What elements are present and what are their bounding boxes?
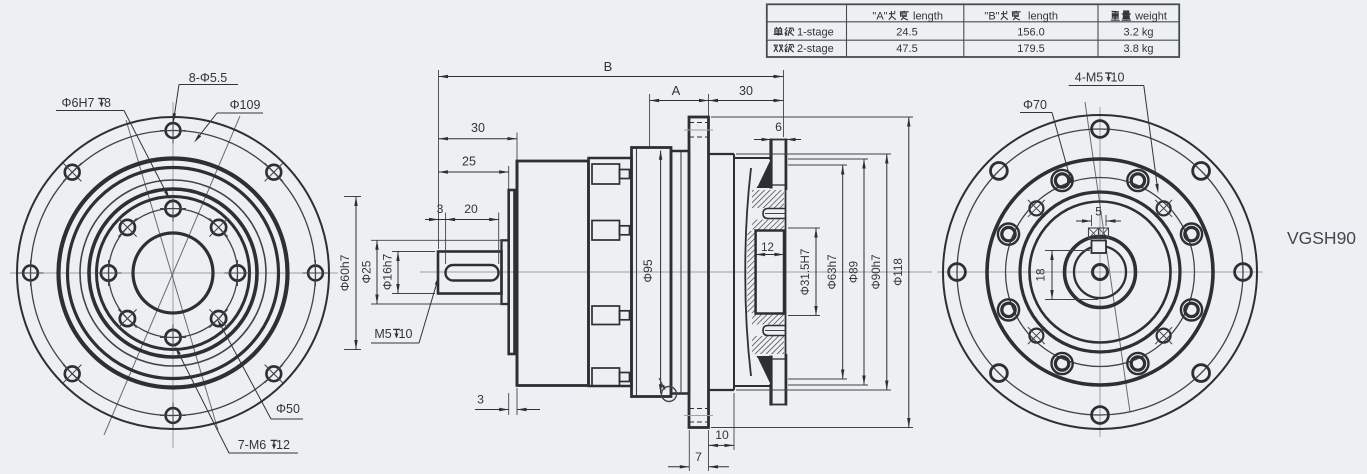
right view keyway	[1092, 241, 1107, 254]
dim phi90h7	[870, 154, 889, 390]
svg-text:3.8 kg: 3.8 kg	[1124, 43, 1154, 55]
left view circle d63 thick	[89, 189, 257, 357]
dim B	[439, 59, 784, 78]
svg-text:Φ25: Φ25	[360, 260, 374, 283]
svg-text:10: 10	[1111, 71, 1125, 85]
shaft step d25	[502, 240, 509, 304]
svg-text:156.0: 156.0	[1017, 27, 1045, 39]
svg-text:5: 5	[1095, 205, 1102, 219]
output cylinder d90h7	[709, 154, 772, 390]
label 4-M5 depth 10	[1069, 71, 1159, 194]
right view 4 M5 holes	[1028, 200, 1172, 344]
table row2 values	[896, 43, 1153, 55]
table grid	[767, 4, 1179, 57]
hub bottom groove plate	[771, 354, 786, 406]
dim phi31.5H7	[799, 228, 818, 316]
svg-text:10: 10	[399, 327, 413, 341]
model name VGSH90	[1287, 228, 1356, 248]
svg-text:3: 3	[477, 393, 484, 407]
left view circle d86 thick	[59, 159, 288, 388]
middle view centerline	[420, 271, 932, 273]
right view keyed bore circle	[1074, 246, 1126, 298]
hub top wedge	[757, 158, 772, 188]
ext lines top	[439, 70, 784, 264]
left view centerline diagonal 2	[126, 120, 218, 430]
label phi50	[217, 319, 303, 419]
datum circle symbol	[659, 378, 677, 402]
svg-text:8-Φ5.5: 8-Φ5.5	[189, 71, 228, 85]
svg-text:6: 6	[775, 120, 782, 134]
right view centerline vertical	[1099, 107, 1101, 437]
dim A	[650, 83, 709, 102]
ext lines shaft diameters	[371, 240, 502, 304]
dim 5 keyway	[1076, 205, 1121, 227]
dim phi118	[892, 117, 911, 428]
svg-text:30: 30	[471, 121, 485, 135]
svg-text:length: length	[913, 11, 943, 23]
table row1 values	[896, 27, 1153, 39]
hub top groove plate	[771, 139, 786, 191]
hub hatch top	[747, 190, 784, 354]
motor body	[517, 161, 589, 386]
svg-text:Φ60h7: Φ60h7	[338, 254, 352, 291]
svg-text:12: 12	[276, 438, 290, 452]
ring gear section	[589, 158, 632, 386]
svg-text:24.5: 24.5	[896, 27, 917, 39]
hub bottom slot	[763, 326, 786, 336]
svg-text:"A": "A"	[872, 11, 887, 23]
right view ring circle outer	[1020, 192, 1180, 352]
svg-text:12: 12	[761, 242, 774, 254]
svg-text:VGSH90: VGSH90	[1287, 228, 1356, 248]
svg-text:Φ31.5H7: Φ31.5H7	[799, 249, 812, 296]
svg-text:Φ70: Φ70	[1023, 98, 1047, 112]
hub bottom wedge	[757, 356, 772, 386]
dim phi16h7	[381, 252, 400, 294]
left view 7 M6 holes and pin hole	[96, 196, 251, 351]
right view outer circle	[943, 115, 1257, 429]
svg-text:7-M6: 7-M6	[238, 438, 267, 452]
right view centerline horizontal	[937, 271, 1263, 273]
table header B length	[984, 11, 1058, 23]
dim 30 right	[709, 84, 784, 102]
left view center bore circle	[133, 233, 213, 313]
cover ring d95	[632, 148, 672, 397]
left view centerline horizontal	[10, 272, 338, 274]
hub top slot	[763, 209, 786, 219]
left view inner bolt circle d50	[109, 209, 238, 338]
right view key section boxes	[1089, 228, 1109, 239]
svg-text:Φ109: Φ109	[230, 98, 261, 112]
svg-text:25: 25	[462, 155, 476, 169]
shaft keyway	[446, 265, 499, 281]
label phi70	[1020, 98, 1073, 187]
svg-text:Φ16h7: Φ16h7	[381, 254, 395, 291]
svg-text:4-M5: 4-M5	[1075, 71, 1104, 85]
dim phi25	[360, 240, 379, 304]
bell curve outline	[745, 168, 751, 376]
table header A length	[872, 11, 943, 23]
dim 10 bottom	[709, 393, 735, 471]
svg-text:weight: weight	[1134, 11, 1167, 23]
label phi109	[194, 98, 263, 143]
svg-text:M5: M5	[374, 327, 391, 341]
label phi6H7 depth 8	[56, 96, 170, 200]
dim 18	[1035, 251, 1099, 300]
label 7-M6 depth 12	[175, 346, 298, 453]
neck section	[671, 151, 689, 394]
svg-text:length: length	[1028, 11, 1058, 23]
svg-text:7: 7	[695, 450, 702, 464]
left view circle thin mid	[80, 180, 266, 366]
svg-text:A: A	[672, 83, 681, 98]
table header weight	[1111, 11, 1167, 23]
left view centerline diagonal	[104, 116, 240, 435]
dim phi60h7	[338, 197, 361, 350]
right view 8 mounting holes	[949, 121, 1252, 424]
output flange plate	[689, 117, 709, 428]
svg-text:20: 20	[464, 202, 478, 216]
svg-text:3.2 kg: 3.2 kg	[1124, 27, 1154, 39]
svg-text:1-stage: 1-stage	[797, 27, 834, 39]
label 8-phi5.5	[173, 71, 238, 123]
dim 7 bottom	[668, 430, 729, 471]
right view center hole	[1093, 265, 1108, 280]
svg-text:8: 8	[104, 96, 111, 110]
right view inner bolt circle thin	[1006, 178, 1195, 367]
table row2 label	[774, 43, 834, 55]
left view flange outer circle	[17, 117, 329, 429]
left view centerline vertical	[172, 102, 174, 448]
body face line	[516, 161, 519, 386]
right view 8 socket holes	[998, 170, 1202, 374]
flange bottom lug hole hidden	[684, 409, 713, 423]
hub right face	[771, 140, 786, 405]
dim 6 top	[754, 120, 801, 141]
svg-text:2-stage: 2-stage	[797, 43, 834, 55]
svg-text:Φ63h7: Φ63h7	[826, 254, 839, 289]
svg-text:30: 30	[739, 84, 753, 98]
svg-text:3: 3	[437, 202, 444, 216]
dim 25	[439, 155, 509, 174]
svg-text:18: 18	[1035, 269, 1048, 282]
ext lines right diameters	[711, 117, 913, 428]
svg-text:Φ90h7: Φ90h7	[870, 254, 883, 289]
svg-text:Φ89: Φ89	[848, 261, 861, 283]
svg-text:10: 10	[715, 428, 729, 442]
left view 8 outer holes d5.5	[18, 118, 329, 429]
output bore box	[756, 231, 784, 314]
dim phi89	[848, 159, 866, 385]
svg-text:179.5: 179.5	[1017, 43, 1045, 55]
right view ring circle inner	[1030, 202, 1171, 343]
dim 12	[756, 242, 784, 256]
label M5 depth 10	[371, 276, 439, 344]
dim 30 left	[439, 121, 518, 140]
shoulder plate d60	[509, 190, 515, 354]
table row1 label	[774, 27, 834, 39]
right view boss circle	[987, 159, 1213, 385]
input shaft	[438, 252, 502, 294]
svg-text:Φ118: Φ118	[892, 258, 905, 286]
svg-text:"B": "B"	[984, 11, 999, 23]
left view spigot circle d60h7	[97, 197, 250, 350]
dim 3 20	[425, 202, 499, 221]
flange top lug hole hidden	[684, 123, 713, 138]
svg-text:Φ6H7: Φ6H7	[62, 96, 95, 110]
dim phi95	[641, 150, 662, 394]
left view bolt circle d109	[31, 131, 316, 416]
dim 3 bottom	[475, 388, 540, 415]
svg-text:Φ50: Φ50	[276, 402, 300, 416]
svg-text:Φ95: Φ95	[641, 259, 655, 283]
left view circle inner ring	[68, 168, 279, 379]
svg-text:B: B	[604, 59, 613, 74]
right view bore circle	[1065, 237, 1136, 308]
right view centerline diagonal	[1085, 102, 1130, 412]
dim phi63h7	[826, 165, 844, 379]
right view bolt circle	[957, 129, 1243, 415]
svg-text:47.5: 47.5	[896, 43, 917, 55]
